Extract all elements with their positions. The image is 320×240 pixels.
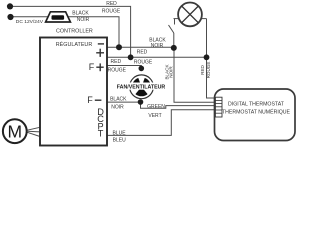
svg-text:DIGITAL THERMOSTAT: DIGITAL THERMOSTAT [228, 101, 285, 107]
svg-text:F: F [89, 62, 95, 72]
svg-text:NOIR: NOIR [151, 43, 164, 49]
svg-text:T: T [98, 129, 104, 139]
svg-text:ROUGE: ROUGE [102, 8, 121, 14]
svg-text:ROUGE: ROUGE [206, 62, 211, 79]
svg-text:BLACK: BLACK [110, 96, 127, 102]
svg-text:BLACK: BLACK [72, 11, 89, 17]
svg-text:ROUGE: ROUGE [134, 59, 153, 65]
svg-text:RED: RED [200, 64, 205, 74]
svg-text:NOIR: NOIR [111, 104, 124, 110]
svg-text:VERT: VERT [148, 113, 161, 119]
svg-text:BLUE: BLUE [112, 130, 126, 136]
svg-text:RED: RED [137, 50, 148, 56]
svg-text:M: M [8, 122, 23, 142]
svg-text:NOIR: NOIR [77, 17, 90, 23]
svg-text:CONTROLLER: CONTROLLER [56, 28, 93, 34]
svg-text:DC 12V/24V: DC 12V/24V [16, 19, 44, 25]
svg-text:F: F [87, 95, 93, 105]
svg-text:ROUGE: ROUGE [108, 67, 127, 73]
svg-text:GREEN: GREEN [147, 104, 165, 110]
svg-text:THERMOSTAT NUMÉRIQUE: THERMOSTAT NUMÉRIQUE [222, 108, 291, 115]
svg-text:FAN/VENTILATEUR: FAN/VENTILATEUR [117, 85, 166, 91]
svg-text:RED: RED [111, 59, 122, 65]
svg-text:RED: RED [106, 1, 117, 7]
svg-text:NOIR: NOIR [169, 66, 174, 78]
svg-text:BLEU: BLEU [113, 137, 126, 143]
svg-text:RÉGULATEUR: RÉGULATEUR [56, 41, 93, 48]
